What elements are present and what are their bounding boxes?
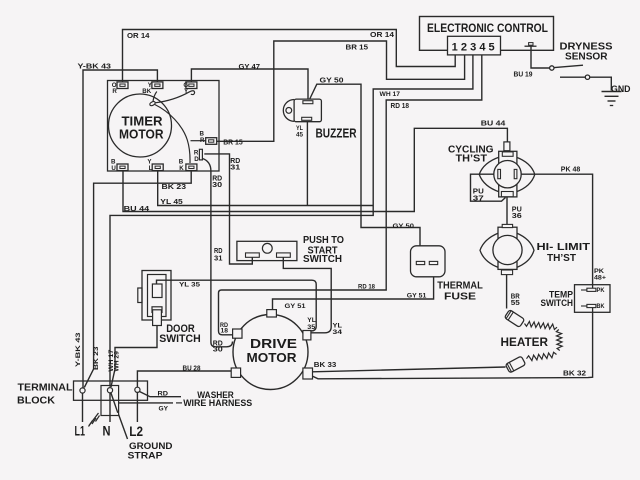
- svg-text:L2: L2: [129, 423, 143, 439]
- svg-text:RD 18: RD 18: [391, 103, 410, 110]
- svg-text:GROUND: GROUND: [129, 441, 173, 451]
- svg-text:L1: L1: [75, 422, 86, 438]
- svg-text:HEATER: HEATER: [501, 335, 549, 349]
- svg-text:BK: BK: [597, 303, 605, 310]
- svg-text:34: 34: [333, 329, 343, 336]
- svg-text:45: 45: [296, 131, 303, 138]
- svg-text:BLOCK: BLOCK: [17, 395, 56, 406]
- svg-text:RD 18: RD 18: [358, 284, 375, 291]
- svg-text:YL 35: YL 35: [179, 281, 200, 288]
- svg-text:TH’ST: TH’ST: [547, 252, 577, 264]
- svg-text:30: 30: [213, 347, 223, 354]
- svg-text:MOTOR: MOTOR: [247, 350, 298, 365]
- svg-text:BK 23: BK 23: [93, 346, 100, 370]
- svg-text:OR 14: OR 14: [127, 33, 150, 40]
- svg-text:PU: PU: [473, 189, 484, 196]
- svg-text:TIMER: TIMER: [122, 114, 163, 128]
- svg-text:BR 15: BR 15: [346, 44, 369, 51]
- svg-text:48+: 48+: [594, 274, 606, 281]
- svg-text:ELECTRONIC CONTROL: ELECTRONIC CONTROL: [427, 21, 548, 35]
- svg-text:BUZZER: BUZZER: [316, 125, 357, 140]
- svg-text:N: N: [103, 422, 111, 438]
- svg-text:36: 36: [512, 213, 522, 220]
- svg-text:GY 47: GY 47: [239, 64, 261, 71]
- svg-text:55: 55: [511, 300, 520, 307]
- svg-text:SWITCH: SWITCH: [541, 298, 574, 308]
- svg-text:R: R: [112, 88, 117, 95]
- svg-text:RD: RD: [158, 391, 169, 398]
- svg-text:BK 23: BK 23: [162, 184, 187, 191]
- svg-text:BU 44: BU 44: [481, 121, 506, 128]
- svg-text:U: U: [111, 165, 116, 172]
- svg-text:MOTOR: MOTOR: [119, 127, 164, 141]
- svg-text:GY 50: GY 50: [393, 223, 415, 230]
- svg-text:BR 15: BR 15: [223, 140, 243, 147]
- svg-text:30: 30: [212, 182, 222, 189]
- svg-text:Y-BK 43: Y-BK 43: [75, 332, 82, 367]
- svg-text:OR 14: OR 14: [370, 32, 394, 39]
- svg-text:31: 31: [230, 165, 240, 172]
- svg-text:WIRE HARNESS: WIRE HARNESS: [183, 398, 252, 408]
- svg-text:GND: GND: [611, 84, 631, 95]
- svg-text:35: 35: [307, 324, 315, 331]
- svg-text:RD: RD: [214, 248, 223, 255]
- svg-text:Y-BK 43: Y-BK 43: [78, 64, 112, 71]
- svg-text:L: L: [149, 165, 153, 172]
- svg-text:FUSE: FUSE: [444, 290, 476, 302]
- svg-text:D: D: [194, 156, 199, 163]
- svg-text:GY 51: GY 51: [285, 303, 306, 310]
- svg-text:37: 37: [473, 196, 484, 203]
- svg-text:GY 50: GY 50: [320, 78, 344, 85]
- svg-text:TERMINAL: TERMINAL: [18, 382, 73, 393]
- svg-text:STRAP: STRAP: [128, 451, 163, 461]
- svg-text:SWITCH: SWITCH: [159, 333, 201, 345]
- svg-text:R: R: [200, 137, 205, 144]
- svg-text:BU 28: BU 28: [183, 365, 201, 372]
- svg-text:PK: PK: [597, 287, 605, 294]
- svg-text:PK 48: PK 48: [561, 167, 581, 174]
- svg-text:K: K: [179, 165, 184, 172]
- svg-text:BK: BK: [142, 88, 151, 95]
- svg-text:TH’ST: TH’ST: [456, 153, 488, 165]
- svg-text:31: 31: [214, 256, 223, 263]
- svg-text:WH 17: WH 17: [380, 91, 401, 98]
- svg-text:GY 51: GY 51: [407, 293, 427, 300]
- svg-text:DRIVE: DRIVE: [250, 336, 297, 351]
- svg-text:YL 45: YL 45: [160, 199, 183, 206]
- svg-text:GY: GY: [159, 406, 169, 413]
- svg-text:1 2 3 4 5: 1 2 3 4 5: [452, 41, 495, 53]
- svg-text:18: 18: [221, 328, 229, 335]
- svg-text:WH 29: WH 29: [114, 351, 121, 372]
- svg-text:BU 19: BU 19: [514, 71, 533, 78]
- svg-text:SWITCH: SWITCH: [303, 253, 342, 265]
- svg-text:BU 44: BU 44: [124, 206, 150, 213]
- svg-text:BK 32: BK 32: [563, 370, 586, 377]
- svg-text:SENSOR: SENSOR: [565, 52, 608, 63]
- svg-text:BK 33: BK 33: [314, 362, 337, 369]
